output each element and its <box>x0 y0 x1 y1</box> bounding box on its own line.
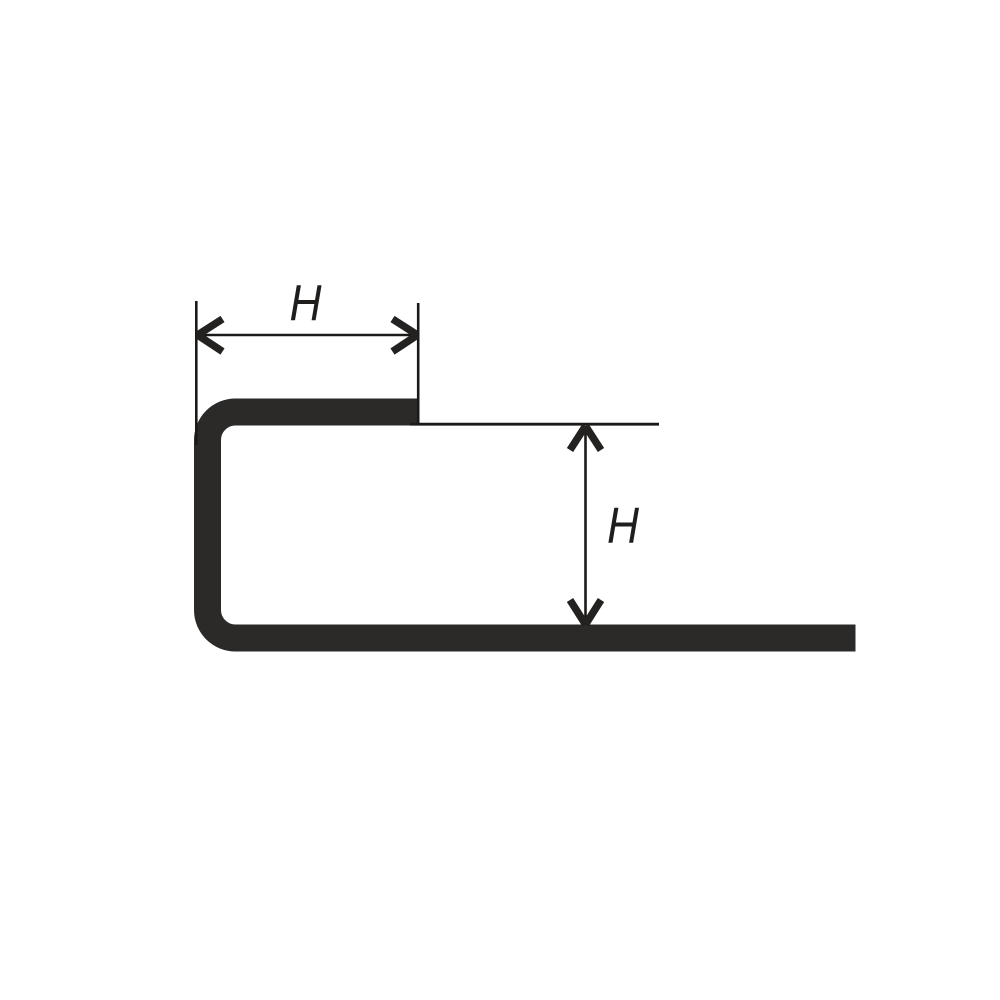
thin reference line <box>410 423 659 426</box>
horizontal dimension line <box>198 334 418 337</box>
L-profile cross-section (thick stroke) <box>208 412 856 638</box>
vertical dimension line <box>584 426 587 624</box>
svg-text:H: H <box>607 497 639 554</box>
svg-text:H: H <box>290 275 322 332</box>
left extension line <box>195 301 198 445</box>
left arrowhead <box>198 319 223 352</box>
right extension line <box>417 303 420 425</box>
top arrowhead <box>570 426 601 450</box>
bottom arrowhead <box>570 600 601 625</box>
right arrowhead <box>393 319 418 352</box>
